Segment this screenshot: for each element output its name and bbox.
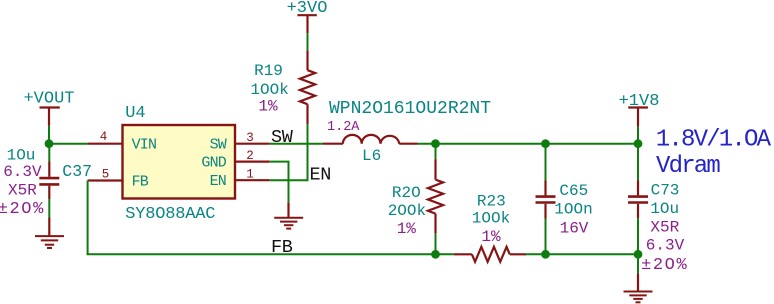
wire +VOUT to node [48, 126, 50, 144]
svg-text:R19: R19 [254, 62, 283, 80]
pin 5 FB [88, 167, 149, 190]
wire SW pin to L6 [270, 143, 323, 145]
wire R19 to EN (vertical) [307, 124, 309, 180]
inductor L6 [323, 99, 491, 165]
svg-text:L6: L6 [362, 147, 381, 165]
capacitor C73 [628, 181, 688, 275]
junction C65 top [541, 139, 550, 148]
svg-text:VIN: VIN [132, 137, 157, 154]
resistor R23 [454, 193, 526, 262]
wire FB horizontal [87, 253, 454, 255]
svg-text:R2O: R2O [392, 184, 421, 202]
svg-text:±2O%: ±2O% [641, 256, 688, 275]
svg-text:C37: C37 [62, 162, 92, 181]
wire node to VIN pin [49, 143, 88, 145]
text note 1.8V/1.0A Vdram [656, 127, 772, 181]
svg-text:SW: SW [271, 127, 294, 148]
svg-text:FB: FB [271, 237, 293, 258]
svg-text:SW: SW [210, 137, 227, 154]
pin 2 GND [201, 149, 269, 172]
wire EN horizontal [270, 179, 309, 181]
wire +3V0 to R19 [307, 33, 309, 50]
wire FB line right [526, 253, 638, 255]
svg-text:C73: C73 [651, 181, 680, 199]
svg-text:GND: GND [201, 155, 226, 172]
svg-text:±2O%: ±2O% [0, 200, 45, 219]
svg-text:1: 1 [246, 167, 254, 181]
resistor R20 [388, 159, 443, 238]
svg-text:X5R: X5R [8, 182, 37, 200]
svg-text:2OOk: 2OOk [388, 202, 426, 220]
IC U4 SY8088AAC [123, 104, 236, 224]
svg-text:+VOUT: +VOUT [23, 90, 74, 109]
svg-text:U4: U4 [125, 104, 145, 123]
ground below GND pin [274, 202, 303, 228]
svg-text:WPN2O161OU2R2NT: WPN2O161OU2R2NT [329, 99, 491, 119]
junction R20 top [431, 139, 440, 148]
wire FB pin drop [87, 181, 89, 255]
svg-text:16V: 16V [560, 219, 589, 237]
svg-text:Vdram: Vdram [656, 153, 720, 180]
ground below C73 [624, 273, 653, 302]
wire node to R20 [435, 144, 437, 159]
wire C73 top [637, 144, 639, 181]
svg-text:1.8V/1.OA: 1.8V/1.OA [656, 127, 772, 154]
svg-text:1%: 1% [397, 220, 417, 238]
capacitor C37 [0, 147, 92, 220]
wire node down to C37 [48, 144, 50, 162]
power flag +VOUT [23, 90, 74, 126]
svg-text:C65: C65 [559, 182, 588, 200]
svg-text:FB: FB [132, 173, 149, 190]
svg-text:1Ou: 1Ou [650, 200, 679, 218]
svg-text:6.3V: 6.3V [3, 163, 42, 181]
junction C73 bottom [634, 250, 643, 259]
junction C73 top [634, 139, 643, 148]
svg-text:3: 3 [246, 131, 254, 145]
wire GND pin path [270, 162, 289, 203]
svg-text:1%: 1% [258, 98, 278, 116]
svg-text:2: 2 [246, 149, 254, 163]
capacitor C65 [536, 181, 593, 238]
pin 4 VIN [88, 130, 157, 153]
wire L6 to +1V8 node [418, 143, 639, 145]
pin 3 SW [210, 131, 270, 154]
svg-text:1OOk: 1OOk [250, 81, 288, 99]
svg-text:1.2A: 1.2A [327, 120, 360, 135]
power flag +1V8 [619, 92, 660, 127]
junction VIN node [45, 139, 54, 148]
wire C65 top [545, 144, 547, 181]
svg-text:1OOn: 1OOn [554, 201, 592, 219]
wire C65 bottom [545, 219, 547, 255]
svg-text:X5R: X5R [650, 218, 679, 236]
ground below C37 [35, 218, 64, 249]
svg-text:5: 5 [102, 167, 110, 181]
svg-text:1OOk: 1OOk [472, 210, 510, 228]
svg-text:SY8O88AAC: SY8O88AAC [125, 205, 215, 224]
resistor R19 [250, 50, 315, 124]
wire R20 to FB line [435, 233, 437, 254]
svg-text:R23: R23 [477, 193, 506, 211]
svg-text:EN: EN [210, 173, 226, 190]
svg-text:1Ou: 1Ou [7, 147, 36, 165]
wire C37 to ground [48, 199, 50, 218]
junction C65 bottom [541, 250, 550, 259]
svg-text:4: 4 [100, 130, 108, 144]
junction R20 bottom [431, 250, 440, 259]
svg-text:6.3V: 6.3V [646, 237, 685, 255]
wire C73 bottom [637, 218, 639, 273]
power flag +3V0 [287, 0, 328, 33]
svg-text:1%: 1% [481, 228, 501, 246]
wire +1V8 to node [637, 127, 639, 144]
svg-text:EN: EN [310, 164, 331, 185]
pin 1 EN [210, 167, 270, 190]
